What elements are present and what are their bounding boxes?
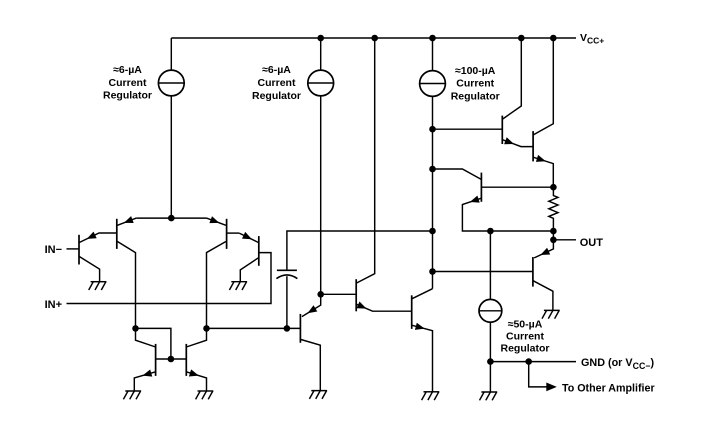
transistor Q11 PNP <box>533 231 554 310</box>
transistor Q5 PNP <box>300 294 320 390</box>
wire OUT stub <box>553 239 576 241</box>
label To Other Amplifier <box>562 383 655 395</box>
wire VCC+ rail <box>171 37 576 39</box>
ground Q13 emitter <box>196 391 214 399</box>
node to-other-amp junction <box>525 358 532 365</box>
wire mirror diode link <box>136 328 171 359</box>
node resistor bottom / Q10 emitter line <box>550 228 557 235</box>
wire reg I4 bottom lead to ground <box>489 322 491 392</box>
ground Q7 emitter <box>422 392 440 400</box>
ground Q1 collector <box>89 282 107 290</box>
node 50uA tap on emitter line <box>487 228 494 235</box>
svg-text:IN+: IN+ <box>45 299 62 311</box>
wire reg I1 top lead <box>170 38 172 70</box>
net label IN- <box>45 244 62 256</box>
net label GND <box>581 357 654 371</box>
wire Q3 base to Q4 emitter <box>227 232 240 234</box>
node Q5 emitter / Q6 base junction <box>317 291 324 298</box>
node OUT junction <box>550 237 557 244</box>
transistor Q6 NPN <box>356 38 412 311</box>
wire reg I4 top lead <box>489 231 491 300</box>
wire GND line <box>490 361 576 363</box>
svg-text:IN−: IN− <box>45 244 62 256</box>
ground Q11 collector <box>542 310 560 318</box>
transistor Q3 PNP <box>207 216 227 328</box>
svg-text:≈50-µACurrentRegulator: ≈50-µACurrentRegulator <box>500 318 549 354</box>
node cap bottom junction <box>284 325 291 332</box>
transistor Q10 NPN <box>433 169 554 231</box>
label I1 6uA Current Regulator <box>103 64 152 101</box>
wire input tail horizontal <box>136 217 206 219</box>
capacitor C1 <box>276 270 297 328</box>
svg-text:OUT: OUT <box>580 237 604 249</box>
label I3 100uA Current Regulator <box>451 65 500 102</box>
wire Q4 base to IN+ <box>67 253 272 304</box>
node VCC junction Q9 collector <box>550 35 557 42</box>
ground Q4 collector <box>229 282 247 290</box>
ground Q12 emitter <box>123 391 141 399</box>
node input tail center <box>168 215 175 222</box>
wire reg I3 top lead <box>432 38 434 71</box>
wire to other amplifier <box>529 362 547 387</box>
current regulator I2 <box>308 70 334 96</box>
node Q3 collector / Q13 collector <box>203 325 210 332</box>
svg-text:≈100-µACurrentRegulator: ≈100-µACurrentRegulator <box>451 65 500 102</box>
node resistor top / Q10 collector <box>550 184 557 191</box>
current regulator I3 <box>420 71 446 97</box>
transistor Q1 PNP <box>79 232 117 282</box>
wire mirror bases <box>156 358 187 360</box>
node VCC junction reg3 <box>429 35 436 42</box>
net label VCC+ <box>580 32 604 46</box>
transistor Q12 NPN mirror <box>134 328 155 391</box>
wire IN- to Q1 base <box>67 248 80 250</box>
wire reg I1 to input emitters node <box>170 96 172 218</box>
node Q10 base tap <box>429 166 436 173</box>
svg-text:To Other Amplifier: To Other Amplifier <box>562 383 655 395</box>
wire Q11 base <box>433 271 533 273</box>
transistor Q7 NPN <box>412 289 433 392</box>
transistor Q13 NPN mirror <box>186 328 206 391</box>
wire Q6 base <box>321 293 357 295</box>
wire mirror output to Q5 base <box>207 327 301 329</box>
node VCC junction Q8 collector <box>518 35 525 42</box>
transistor Q8 NPN <box>433 38 534 147</box>
net label OUT <box>580 237 604 249</box>
transistor Q2 PNP <box>117 216 137 328</box>
wire cap top to 100uA node <box>287 231 433 270</box>
node compensation cap tap <box>429 228 436 235</box>
current regulator I4 <box>479 299 502 322</box>
transistor Q9 NPN <box>533 38 553 187</box>
transistor Q4 PNP <box>239 232 259 282</box>
arrow to other amplifier <box>546 383 557 392</box>
resistor R1 <box>549 187 558 231</box>
node Q11 base tap <box>429 268 436 275</box>
node mirror base junction <box>168 356 175 363</box>
current regulator I1 <box>158 70 184 96</box>
wire reg I3 main vertical <box>432 96 434 288</box>
wire reg I2 top lead <box>320 38 322 70</box>
node VCC junction Q6 collector <box>371 35 378 42</box>
node GND line junction <box>487 358 494 365</box>
ground Q5 collector <box>309 391 327 399</box>
node VCC junction reg2 <box>317 35 324 42</box>
node Q2 collector / Q12 collector <box>132 325 139 332</box>
ground under I4 <box>480 392 498 400</box>
node Q8 base tap <box>429 126 436 133</box>
label I2 6uA Current Regulator <box>252 64 301 102</box>
net label IN+ <box>45 299 62 311</box>
wire reg I2 to Q5/Q6 node <box>320 96 322 294</box>
label I4 50uA Current Regulator <box>500 318 549 354</box>
